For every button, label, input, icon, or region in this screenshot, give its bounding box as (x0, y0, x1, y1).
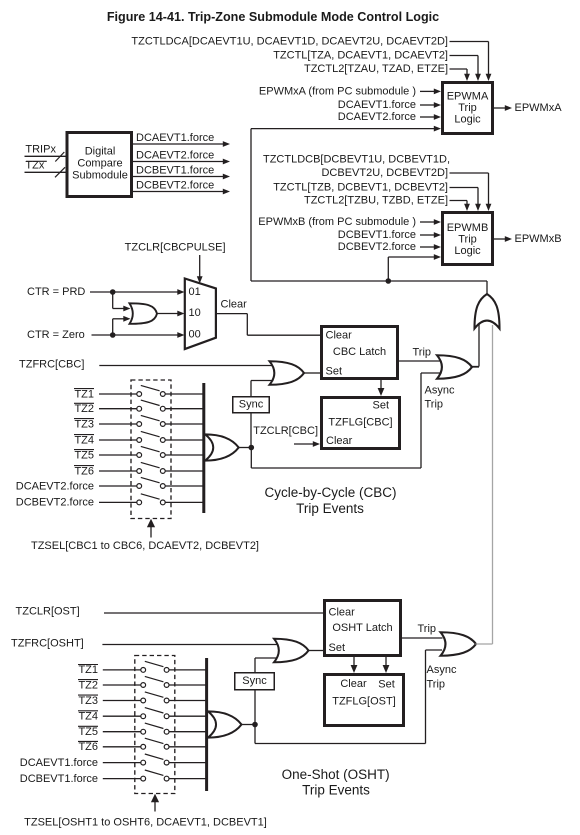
svg-text:TZCTL2[TZBU, TZBD, ETZE]: TZCTL2[TZBU, TZBD, ETZE] (304, 195, 448, 207)
svg-text:Figure 14-41. Trip-Zone Submod: Figure 14-41. Trip-Zone Submodule Mode C… (107, 10, 439, 24)
svg-text:DCBEVT1.force: DCBEVT1.force (338, 229, 416, 241)
svg-text:Sync: Sync (239, 399, 264, 411)
svg-text:Set: Set (378, 679, 395, 691)
svg-text:Sync: Sync (242, 675, 267, 687)
svg-text:TZFLG[CBC]: TZFLG[CBC] (328, 417, 392, 429)
svg-text:Compare: Compare (77, 158, 122, 170)
svg-text:Clear: Clear (326, 330, 353, 342)
svg-text:Digital: Digital (85, 146, 116, 158)
svg-text:DCBEVT2.force: DCBEVT2.force (338, 241, 416, 253)
svg-text:DCAEVT1.force: DCAEVT1.force (20, 757, 98, 769)
svg-text:TZCLR[CBCPULSE]: TZCLR[CBCPULSE] (125, 242, 226, 254)
svg-text:TZ3: TZ3 (78, 695, 98, 707)
svg-text:TRIPx: TRIPx (25, 144, 56, 156)
svg-text:DCAEVT2.force: DCAEVT2.force (136, 149, 214, 161)
svg-text:CTR = Zero: CTR = Zero (27, 329, 85, 341)
svg-text:EPWMB: EPWMB (447, 222, 489, 234)
svg-text:Set: Set (326, 366, 343, 378)
svg-text:Logic: Logic (454, 245, 481, 257)
svg-text:EPWMxB (from PC submodule ): EPWMxB (from PC submodule ) (258, 216, 416, 228)
svg-text:TZ3: TZ3 (74, 418, 94, 430)
svg-text:Trip: Trip (418, 623, 437, 635)
svg-text:TZCTLDCB[DCBEVT1U, DCBEVT1D,: TZCTLDCB[DCBEVT1U, DCBEVT1D, (263, 154, 450, 166)
svg-text:TZFRC[CBC]: TZFRC[CBC] (19, 359, 84, 371)
svg-text:Trip: Trip (427, 679, 446, 691)
svg-text:EPWMA: EPWMA (447, 91, 489, 103)
svg-text:Trip: Trip (425, 399, 444, 411)
svg-text:Async: Async (425, 385, 455, 397)
svg-text:DCBEVT2.force: DCBEVT2.force (16, 497, 94, 509)
svg-text:Async: Async (427, 664, 457, 676)
svg-text:TZCLR[OST]: TZCLR[OST] (16, 606, 80, 618)
svg-text:OSHT Latch: OSHT Latch (332, 622, 392, 634)
svg-text:Trip: Trip (458, 102, 477, 114)
svg-text:TZ2: TZ2 (74, 403, 94, 415)
svg-text:TZFRC[OSHT]: TZFRC[OSHT] (11, 638, 84, 650)
svg-text:Clear: Clear (221, 299, 248, 311)
svg-text:CTR = PRD: CTR = PRD (27, 286, 85, 298)
svg-text:TZ5: TZ5 (78, 726, 98, 738)
svg-text:DCAEVT2.force: DCAEVT2.force (338, 111, 416, 123)
svg-text:TZ6: TZ6 (78, 741, 98, 753)
svg-text:Set: Set (329, 642, 346, 654)
svg-text:EPWMxA (from PC submodule ): EPWMxA (from PC submodule ) (259, 85, 416, 97)
svg-text:DCBEVT1.force: DCBEVT1.force (136, 164, 214, 176)
svg-text:Clear: Clear (340, 678, 367, 690)
svg-text:TZ1: TZ1 (78, 664, 98, 676)
svg-text:Cycle-by-Cycle (CBC): Cycle-by-Cycle (CBC) (264, 485, 396, 500)
svg-text:TZ1: TZ1 (74, 388, 94, 400)
svg-text:One-Shot (OSHT): One-Shot (OSHT) (282, 767, 390, 782)
svg-text:00: 00 (189, 328, 201, 340)
svg-text:Logic: Logic (454, 114, 481, 126)
svg-text:DCBEVT2U, DCBEVT2D]: DCBEVT2U, DCBEVT2D] (321, 167, 448, 179)
svg-text:TZCTL[TZB, DCBEVT1, DCBEVT2]: TZCTL[TZB, DCBEVT1, DCBEVT2] (273, 182, 448, 194)
svg-text:TZ4: TZ4 (78, 711, 98, 723)
svg-text:Clear: Clear (326, 435, 353, 447)
svg-text:DCAEVT2.force: DCAEVT2.force (16, 480, 94, 492)
svg-text:DCBEVT1.force: DCBEVT1.force (20, 773, 98, 785)
svg-text:TZCTLDCA[DCAEVT1U, DCAEVT1D, D: TZCTLDCA[DCAEVT1U, DCAEVT1D, DCAEVT2U, D… (131, 36, 448, 48)
svg-text:Set: Set (372, 400, 389, 412)
svg-text:TZ6: TZ6 (74, 465, 94, 477)
svg-text:TZCTL[TZA, DCAEVT1, DCAEVT2]: TZCTL[TZA, DCAEVT1, DCAEVT2] (273, 50, 448, 62)
svg-text:DCBEVT2.force: DCBEVT2.force (136, 179, 214, 191)
svg-text:Trip Events: Trip Events (302, 783, 370, 798)
svg-text:TZFLG[OST]: TZFLG[OST] (332, 696, 396, 708)
svg-text:Submodule: Submodule (72, 170, 128, 182)
svg-text:01: 01 (189, 286, 201, 298)
svg-text:Trip Events: Trip Events (296, 501, 364, 516)
svg-text:TZ5: TZ5 (74, 449, 94, 461)
svg-text:DCAEVT1.force: DCAEVT1.force (136, 132, 214, 144)
svg-text:TZCTL2[TZAU, TZAD, ETZE]: TZCTL2[TZAU, TZAD, ETZE] (304, 63, 448, 75)
svg-text:TZ2: TZ2 (78, 679, 98, 691)
svg-text:TZCLR[CBC]: TZCLR[CBC] (253, 425, 318, 437)
svg-text:EPWMxB: EPWMxB (515, 233, 562, 245)
svg-text:DCAEVT1.force: DCAEVT1.force (338, 99, 416, 111)
svg-text:Trip: Trip (458, 234, 477, 246)
svg-text:TZSEL[CBC1 to CBC6, DCAEVT2, D: TZSEL[CBC1 to CBC6, DCAEVT2, DCBEVT2] (31, 540, 259, 552)
svg-text:TZ4: TZ4 (74, 434, 94, 446)
svg-text:Trip: Trip (413, 347, 432, 359)
svg-text:TZSEL[OSHT1 to OSHT6, DCAEVT1,: TZSEL[OSHT1 to OSHT6, DCAEVT1, DCBEVT1] (24, 817, 267, 829)
svg-text:10: 10 (189, 307, 201, 319)
svg-text:CBC Latch: CBC Latch (333, 346, 386, 358)
svg-text:Clear: Clear (329, 607, 356, 619)
svg-text:EPWMxA: EPWMxA (515, 102, 563, 114)
